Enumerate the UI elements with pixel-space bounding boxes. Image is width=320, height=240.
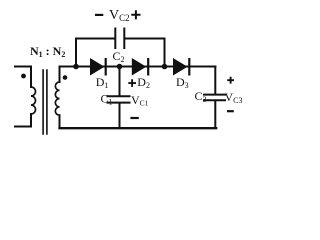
node: D2-D3 / top-rail junction bbox=[162, 64, 168, 70]
minus sign of VC3 bbox=[227, 110, 234, 112]
svg-text:VC2: VC2 bbox=[109, 8, 130, 23]
svg-text:VC3: VC3 bbox=[225, 90, 243, 105]
wire: C1 branch bbox=[119, 67, 121, 96]
svg-text:D3: D3 bbox=[176, 75, 189, 90]
plus sign of VC2 bbox=[131, 10, 140, 19]
minus sign of VC1 bbox=[130, 117, 138, 119]
plus sign of VC1 bbox=[128, 79, 136, 87]
wire: diode rail bbox=[60, 66, 216, 68]
capacitor C1 bbox=[108, 96, 130, 102]
svg-text:C1: C1 bbox=[101, 92, 113, 107]
wire: top rail left segment bbox=[76, 39, 114, 67]
wire: C1 to bottom rail bbox=[119, 103, 121, 128]
diode D2 bbox=[132, 58, 148, 76]
svg-text:N1 : N2: N1 : N2 bbox=[30, 44, 65, 59]
transformer T1 secondary winding bbox=[55, 82, 59, 115]
diode D3 bbox=[173, 58, 189, 76]
transformer T1 secondary top lead bbox=[59, 67, 61, 83]
transformer T1 primary top lead bbox=[15, 67, 31, 88]
node: secondary/top-rail junction bbox=[73, 64, 79, 70]
transformer T1 primary winding bbox=[31, 87, 36, 114]
wire: C3 to bottom rail bbox=[214, 101, 216, 129]
capacitor C2 bbox=[115, 29, 124, 49]
minus sign of VC2 bbox=[95, 14, 103, 16]
plus sign of VC3 bbox=[227, 77, 234, 84]
svg-text:C2: C2 bbox=[113, 49, 125, 64]
svg-text:D1: D1 bbox=[96, 75, 109, 90]
transformer T1 primary bottom lead bbox=[15, 114, 31, 127]
node: D1-D2 / C1 junction bbox=[117, 64, 123, 70]
wire: top rail right segment bbox=[125, 39, 164, 67]
wire: bottom rail bbox=[60, 127, 217, 129]
capacitor C3 bbox=[204, 95, 225, 101]
svg-text:C3: C3 bbox=[195, 89, 207, 104]
diode D1 bbox=[90, 58, 106, 76]
svg-text:D2: D2 bbox=[137, 75, 150, 90]
transformer core bbox=[43, 70, 47, 134]
wire: C3 branch bbox=[214, 67, 216, 95]
polarity dot primary bbox=[21, 74, 26, 79]
transformer T1 secondary bottom lead bbox=[59, 115, 61, 128]
polarity dot secondary bbox=[63, 75, 68, 80]
svg-text:VC1: VC1 bbox=[131, 93, 149, 108]
